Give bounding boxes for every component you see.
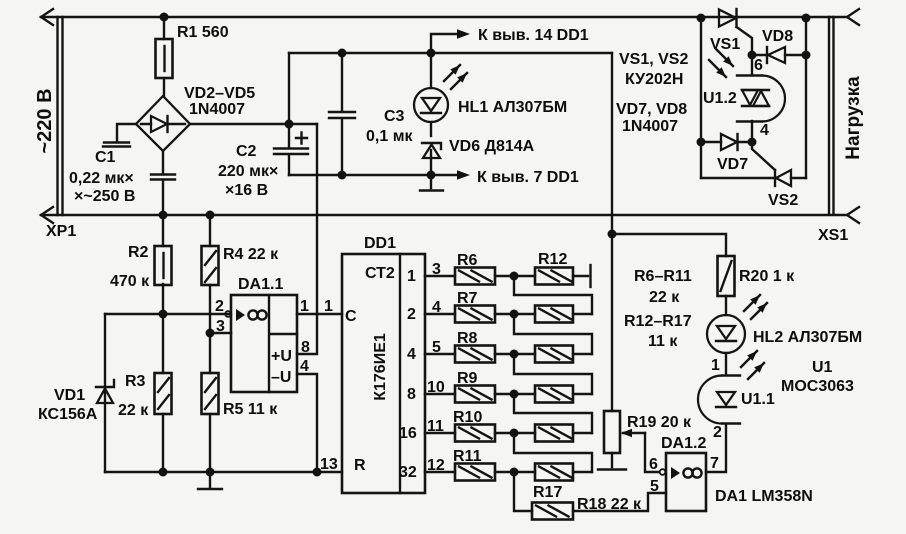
wire ladder link 2 — [514, 314, 592, 354]
svg-text:22 к: 22 к — [118, 402, 149, 419]
svg-text:1: 1 — [711, 357, 720, 374]
svg-text:VS1, VS2: VS1, VS2 — [619, 51, 688, 68]
svg-text:4: 4 — [760, 122, 769, 139]
counter DD1 K176IE1 — [342, 254, 425, 493]
node ladder 4 — [510, 390, 519, 399]
wire R3 top lead — [162, 314, 164, 373]
U1.1 emission arrow 2 — [748, 363, 764, 379]
resistor R3 — [155, 373, 172, 414]
wire ladder link 4 — [514, 394, 592, 433]
node R20 branch — [608, 230, 617, 239]
wire R2 bottom lead — [162, 284, 164, 314]
op-amp DA1.1 — [231, 295, 297, 392]
svg-text:ХР1: ХР1 — [46, 223, 76, 240]
wire R9 to node — [495, 393, 535, 395]
resistor R17 — [535, 464, 573, 481]
wire -U drop — [297, 374, 317, 472]
wire R19 wiper to pin6 — [645, 433, 659, 472]
svg-text:Нагрузка: Нагрузка — [843, 76, 864, 160]
wire +9V bus down — [611, 53, 613, 411]
svg-text:VD7, VD8: VD7, VD8 — [616, 101, 687, 118]
svg-text:220 мк×: 220 мк× — [218, 163, 278, 180]
svg-text:R10: R10 — [453, 409, 482, 426]
svg-text:VD8: VD8 — [762, 28, 793, 45]
U1.2 photo arrow 2 — [709, 60, 726, 77]
wire R4 top lead — [209, 215, 211, 246]
wire R3 bottom lead — [162, 414, 164, 472]
svg-text:R4 22 к: R4 22 к — [223, 246, 279, 263]
node -U on ground rail — [313, 468, 322, 477]
node VD8 right column — [802, 51, 811, 60]
svg-text:6: 6 — [754, 57, 763, 74]
wire R1 top lead — [163, 17, 165, 39]
svg-text:+U: +U — [271, 348, 292, 365]
zener VD6 — [422, 143, 441, 149]
node R3 on ground rail — [159, 468, 168, 477]
svg-text:R9: R9 — [457, 370, 478, 387]
svg-text:R2: R2 — [128, 244, 149, 261]
optotriac U1.2 — [751, 55, 753, 75]
resistor R12 — [535, 268, 573, 285]
wire R5 bottom lead — [209, 414, 211, 472]
svg-text:8: 8 — [407, 386, 416, 403]
node right column on rail — [802, 14, 811, 23]
wire block bottom — [701, 177, 775, 179]
svg-text:К176ИЕ1: К176ИЕ1 — [372, 333, 389, 401]
svg-text:0,22 мк×: 0,22 мк× — [69, 170, 134, 187]
node R2/R3 junction — [159, 310, 168, 319]
wire common ground rail — [105, 471, 342, 473]
ladder top terminal bar — [573, 275, 588, 277]
node DC plus — [285, 120, 294, 129]
node HL1 top on +9V rail — [427, 49, 436, 58]
node ladder 2 — [510, 310, 519, 319]
svg-text:470 к: 470 к — [110, 273, 150, 290]
svg-text:VD1: VD1 — [54, 387, 85, 404]
wire ladder link 3 — [514, 354, 592, 394]
ground under VD6 node — [430, 175, 432, 188]
capacitor C1 — [162, 151, 164, 173]
svg-text:1: 1 — [324, 298, 333, 315]
resistor R6 — [455, 268, 495, 285]
svg-text:VD7: VD7 — [717, 156, 748, 173]
wire R18 to DA1.2 pin5 — [573, 493, 666, 511]
resistor R14 — [535, 346, 573, 363]
node R5 on ground rail — [206, 468, 215, 477]
wire to R20 — [612, 234, 726, 256]
wire top mains rail — [41, 16, 847, 18]
svg-text:32: 32 — [399, 464, 417, 481]
svg-text:2: 2 — [215, 298, 224, 315]
wire R4-R5 link — [209, 285, 211, 373]
wire +9V rail — [289, 52, 612, 54]
svg-text:–U: –U — [271, 369, 291, 386]
svg-text:R12: R12 — [538, 251, 567, 268]
svg-text:22 к: 22 к — [649, 289, 680, 306]
wire ladder link 1 — [514, 276, 592, 314]
wire ladder link 5 — [514, 433, 592, 472]
wire R2 top lead — [162, 215, 164, 246]
wire R8 to node — [495, 353, 535, 355]
svg-text:MOC3063: MOC3063 — [781, 378, 854, 395]
svg-text:HL2 АЛ307БМ: HL2 АЛ307БМ — [753, 329, 862, 346]
resistor R1 — [156, 39, 173, 78]
wire +U riser — [297, 124, 317, 354]
wire DD1 out to R6 — [425, 275, 455, 277]
svg-text:~220 В: ~220 В — [34, 88, 56, 153]
thyristor VS2 — [774, 170, 776, 186]
LED HL1 — [430, 53, 432, 88]
resistor R7 — [455, 306, 495, 323]
svg-text:C1: C1 — [95, 149, 116, 166]
svg-text:DD1: DD1 — [364, 235, 396, 252]
svg-text:0,1 мк: 0,1 мк — [366, 128, 414, 145]
svg-text:К выв. 7 DD1: К выв. 7 DD1 — [477, 169, 579, 186]
wire R11 to node — [495, 471, 535, 473]
svg-text:1N4007: 1N4007 — [622, 118, 678, 135]
resistor R8 — [455, 346, 495, 363]
wire DD1 out to R11 — [425, 471, 455, 473]
op-amp DA1.2 — [666, 453, 706, 511]
zener VD1 — [96, 380, 114, 387]
svg-text:R11: R11 — [453, 448, 482, 465]
svg-text:3: 3 — [216, 318, 225, 335]
resistor R9 — [455, 386, 495, 403]
wire R17 right lead — [573, 471, 592, 473]
resistor R2 — [155, 246, 172, 285]
connector XS1 bottom pin arrow — [847, 207, 859, 223]
svg-text:C3: C3 — [384, 108, 405, 125]
wire right column of block — [805, 18, 807, 178]
node C3 bottom — [338, 171, 347, 180]
LED HL2 — [707, 315, 745, 353]
diode VD7 — [701, 141, 721, 143]
ground under R19 — [611, 453, 613, 467]
svg-text:R20 1 к: R20 1 к — [739, 268, 795, 285]
svg-text:U1.2: U1.2 — [703, 90, 737, 107]
svg-text:1: 1 — [300, 298, 309, 315]
svg-text:R17: R17 — [533, 484, 562, 501]
node VD6 bottom — [427, 171, 436, 180]
svg-text:R6–R11: R6–R11 — [634, 268, 692, 285]
svg-text:СТ2: СТ2 — [365, 265, 395, 282]
svg-text:VS1: VS1 — [710, 36, 740, 53]
wire DD1 out to R7 — [425, 313, 455, 315]
resistor R5 — [202, 373, 219, 414]
svg-text:C: C — [345, 308, 357, 325]
wire R20 to HL2 — [725, 296, 727, 315]
svg-text:U1.1: U1.1 — [741, 391, 775, 408]
svg-text:R: R — [354, 457, 366, 474]
wire DD1 out to R8 — [425, 353, 455, 355]
svg-text:DA1 LM358N: DA1 LM358N — [715, 488, 813, 505]
svg-text:2: 2 — [713, 424, 722, 441]
connector XP1 bottom pin arrow — [41, 207, 53, 223]
HL2 emission arrow 2 — [751, 303, 767, 319]
wire DA1.1 pin3 — [210, 332, 231, 334]
svg-text:DA1.1: DA1.1 — [238, 276, 283, 293]
node DA1.1 pin3 junction — [206, 329, 215, 338]
svg-text:R1 560: R1 560 — [177, 24, 229, 41]
diode bridge VD2-VD5 — [136, 96, 190, 151]
svg-text:DA1.2: DA1.2 — [661, 435, 706, 452]
wire R14 right lead — [573, 353, 592, 355]
svg-text:VD2–VD5: VD2–VD5 — [184, 85, 255, 102]
svg-text:1: 1 — [407, 268, 416, 285]
wire R10 to node — [495, 432, 535, 434]
svg-text:R7: R7 — [457, 290, 478, 307]
svg-text:4: 4 — [300, 358, 309, 375]
resistor R16 — [535, 425, 573, 442]
ground symbol lower left — [209, 472, 211, 487]
resistor R15 — [535, 386, 573, 403]
svg-text:7: 7 — [710, 455, 719, 472]
svg-text:1N4007: 1N4007 — [189, 101, 245, 118]
svg-text:VS2: VS2 — [768, 192, 798, 209]
node ladder 6 — [510, 468, 519, 477]
wire pin7 to U1.1 — [706, 424, 726, 472]
connector XS1 top pin arrow — [847, 9, 859, 25]
opto LED U1.1 — [722, 376, 740, 424]
wire bridge + output — [190, 123, 317, 125]
wire common 0V — [289, 174, 431, 176]
connector XP1 top pin arrow — [41, 9, 53, 25]
wire DA1.1 pin2 net — [105, 313, 231, 315]
node ladder 3 — [510, 350, 519, 359]
node C1/R2 on bottom rail — [159, 211, 168, 220]
svg-text:R5 11 к: R5 11 к — [223, 401, 278, 418]
capacitor C2 — [288, 124, 290, 148]
svg-text:КУ202Н: КУ202Н — [625, 71, 683, 88]
connector XS1 double line — [829, 17, 834, 213]
diode VD8 — [752, 54, 767, 56]
node VS1 anode on rail — [697, 14, 706, 23]
wire R1 to bridge — [163, 78, 165, 96]
wire R13 right lead — [573, 313, 592, 315]
node R4 on bottom rail — [206, 211, 215, 220]
svg-text:13: 13 — [320, 456, 338, 473]
svg-text:R3: R3 — [125, 373, 146, 390]
wire DD1 out to R10 — [425, 432, 455, 434]
HL2 emission arrow 1 — [744, 295, 760, 311]
wire bottom mains rail — [41, 214, 847, 216]
wire R15 right lead — [573, 393, 592, 395]
node ladder 1 — [510, 272, 519, 281]
wire VD1 branch — [104, 314, 106, 472]
svg-text:11 к: 11 к — [648, 333, 678, 350]
U1.1 emission arrow 1 — [741, 351, 757, 367]
resistor R4 — [202, 246, 219, 285]
svg-text:2: 2 — [407, 306, 416, 323]
node pin4 of U1.2 — [748, 138, 757, 147]
svg-text:4: 4 — [407, 346, 416, 363]
wire HL2 to U1.1 — [725, 353, 727, 375]
wire DD1 out to R9 — [425, 393, 455, 395]
svg-text:R12–R17: R12–R17 — [624, 313, 692, 330]
svg-text:C2: C2 — [236, 143, 257, 160]
resistor R13 — [535, 306, 573, 323]
chassis stub at bridge left vertex — [117, 124, 136, 142]
resistor R18 — [532, 503, 573, 520]
svg-text:R6: R6 — [457, 252, 478, 269]
svg-text:HL1 АЛ307БМ: HL1 АЛ307БМ — [458, 99, 567, 116]
node R1 top on mains rail — [160, 13, 169, 22]
wire R7 to node — [495, 313, 535, 315]
potentiometer R19 — [604, 411, 620, 453]
wire DA1.1 out to DD1 C — [297, 313, 342, 315]
node pin6 of U1.2 — [748, 51, 757, 60]
resistor R11 — [455, 464, 495, 481]
node VD7 left column — [697, 138, 706, 147]
wire R16 right lead — [573, 432, 592, 434]
svg-text:VD6 Д814А: VD6 Д814А — [449, 138, 535, 155]
svg-text:КС156А: КС156А — [38, 406, 98, 423]
resistor R10 — [455, 425, 495, 442]
arrow to pin 7 DD1 — [431, 174, 458, 176]
svg-text:XS1: XS1 — [818, 227, 848, 244]
svg-text:R19 20 к: R19 20 к — [627, 414, 692, 431]
svg-text:×~250 В: ×~250 В — [74, 188, 135, 205]
wire node6 to R18 — [514, 472, 532, 511]
node C3 top on +9V rail — [338, 49, 347, 58]
HL1 emission arrow 1 — [444, 65, 460, 81]
svg-text:U1: U1 — [812, 359, 833, 376]
wire left column of block — [700, 18, 702, 178]
U1.2 photo arrow 1 — [716, 49, 733, 66]
HL1 emission arrow 2 — [451, 73, 467, 89]
wire riser to +9V rail — [288, 53, 290, 124]
resistor R20 — [718, 256, 735, 296]
svg-text:×16 В: ×16 В — [225, 182, 268, 199]
svg-text:16: 16 — [399, 425, 417, 442]
svg-text:К выв. 14 DD1: К выв. 14 DD1 — [478, 27, 589, 44]
svg-text:5: 5 — [650, 478, 659, 495]
svg-text:R8: R8 — [457, 330, 478, 347]
connector XP1 double line — [58, 17, 63, 215]
wire R6 to node — [495, 275, 535, 277]
svg-text:6: 6 — [649, 456, 658, 473]
node ladder 5 — [510, 429, 519, 438]
